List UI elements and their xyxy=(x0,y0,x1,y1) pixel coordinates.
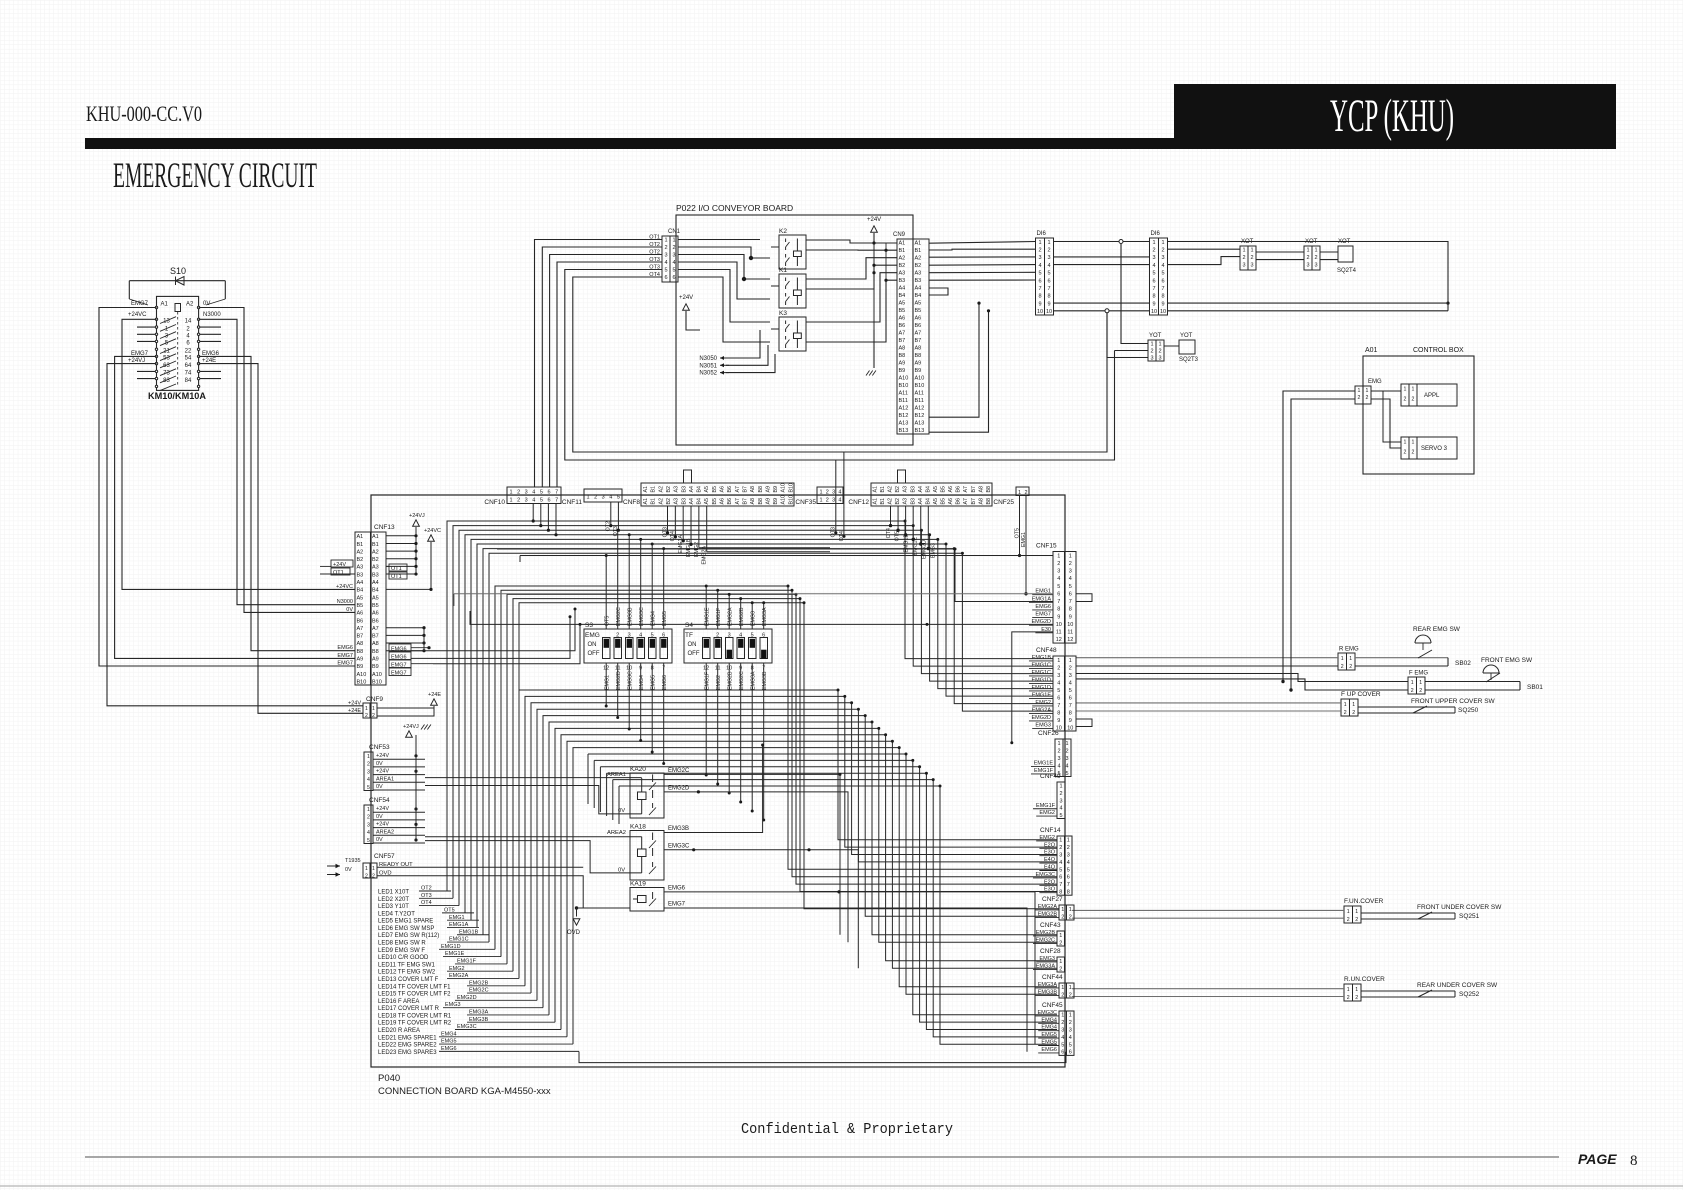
svg-text:4: 4 xyxy=(1067,860,1070,866)
svg-text:+24V: +24V xyxy=(376,769,389,775)
svg-text:EMG5: EMG5 xyxy=(662,611,668,626)
svg-text:OT4: OT4 xyxy=(886,528,892,538)
svg-text:7: 7 xyxy=(1059,882,1062,888)
svg-text:2: 2 xyxy=(1404,450,1407,456)
svg-text:A6: A6 xyxy=(899,316,906,322)
svg-text:B8: B8 xyxy=(758,498,764,505)
svg-text:1: 1 xyxy=(1412,387,1415,393)
svg-text:4: 4 xyxy=(1057,576,1060,582)
svg-text:7: 7 xyxy=(1038,286,1041,292)
svg-text:B5: B5 xyxy=(372,603,379,609)
svg-text:A7: A7 xyxy=(963,498,969,505)
svg-text:1: 1 xyxy=(1341,656,1344,662)
svg-text:1: 1 xyxy=(1419,680,1422,686)
svg-text:A9: A9 xyxy=(372,657,379,663)
svg-text:B7: B7 xyxy=(915,338,922,344)
svg-text:A3: A3 xyxy=(903,498,909,505)
svg-text:B2: B2 xyxy=(899,263,906,269)
svg-text:YCP (KHU): YCP (KHU) xyxy=(1330,90,1454,142)
svg-text:A7: A7 xyxy=(899,331,906,337)
svg-text:12: 12 xyxy=(1056,637,1062,643)
svg-text:9: 9 xyxy=(1161,301,1164,307)
svg-text:5: 5 xyxy=(751,633,754,639)
svg-text:3: 3 xyxy=(1314,263,1317,269)
svg-text:4: 4 xyxy=(532,490,535,496)
svg-text:8: 8 xyxy=(1161,294,1164,300)
svg-text:LED15 TF COVER LMT F2: LED15 TF COVER LMT F2 xyxy=(378,992,451,998)
svg-text:B9: B9 xyxy=(915,368,922,374)
svg-text:K2: K2 xyxy=(779,228,787,235)
svg-text:A7: A7 xyxy=(735,486,741,493)
svg-text:3: 3 xyxy=(664,253,667,259)
svg-text:CONNECTION BOARD KGA-M4550-xx: CONNECTION BOARD KGA-M4550-xxx xyxy=(378,1086,551,1097)
svg-text:9: 9 xyxy=(1069,614,1072,620)
svg-text:14: 14 xyxy=(185,319,192,325)
svg-text:EMG2B: EMG2B xyxy=(739,607,745,626)
svg-text:LED6 EMG SW MSP: LED6 EMG SW MSP xyxy=(378,926,434,932)
svg-text:A4: A4 xyxy=(899,286,906,292)
svg-text:6: 6 xyxy=(1061,1050,1064,1056)
svg-text:9: 9 xyxy=(1152,301,1155,307)
svg-text:KA19: KA19 xyxy=(630,881,646,888)
svg-text:8: 8 xyxy=(1067,890,1070,896)
svg-text:3: 3 xyxy=(367,769,370,775)
svg-text:B6: B6 xyxy=(915,323,922,329)
svg-text:A6: A6 xyxy=(948,498,954,505)
svg-text:3: 3 xyxy=(1038,255,1041,261)
svg-text:LED20 R AREA: LED20 R AREA xyxy=(378,1028,420,1034)
svg-text:B1: B1 xyxy=(651,498,657,505)
svg-text:B3: B3 xyxy=(915,278,922,284)
svg-text:EMG1B: EMG1B xyxy=(1032,655,1052,661)
svg-text:8: 8 xyxy=(1630,1153,1638,1169)
svg-text:8: 8 xyxy=(1057,607,1060,613)
svg-text:B10: B10 xyxy=(899,383,909,389)
svg-text:FRONT EMG SW: FRONT EMG SW xyxy=(1481,657,1533,664)
svg-text:1: 1 xyxy=(1412,440,1415,446)
svg-text:2: 2 xyxy=(1352,710,1355,716)
svg-text:2: 2 xyxy=(1059,791,1062,797)
svg-text:0V: 0V xyxy=(345,867,352,873)
svg-text:EMG1D: EMG1D xyxy=(1031,685,1051,691)
svg-text:2: 2 xyxy=(826,490,829,496)
svg-text:A13: A13 xyxy=(915,421,925,427)
svg-text:5: 5 xyxy=(1059,867,1062,873)
svg-text:CNF54: CNF54 xyxy=(369,797,390,804)
svg-text:2: 2 xyxy=(1057,561,1060,567)
svg-text:1: 1 xyxy=(1344,702,1347,708)
svg-text:B5: B5 xyxy=(941,498,947,505)
svg-text:2: 2 xyxy=(1069,914,1072,920)
svg-text:10: 10 xyxy=(1160,309,1166,315)
svg-text:2: 2 xyxy=(1358,395,1361,401)
svg-text:P022 I/O CONVEYOR BOARD: P022 I/O CONVEYOR BOARD xyxy=(676,203,793,213)
svg-text:N3000: N3000 xyxy=(203,312,221,318)
svg-text:1: 1 xyxy=(1069,553,1072,559)
svg-text:EMG1F: EMG1F xyxy=(1036,803,1056,809)
svg-text:A2: A2 xyxy=(372,549,379,555)
svg-text:A2: A2 xyxy=(915,256,922,262)
svg-text:3: 3 xyxy=(1057,673,1060,679)
svg-text:A6: A6 xyxy=(372,611,379,617)
svg-text:6: 6 xyxy=(1069,1050,1072,1056)
svg-text:2: 2 xyxy=(1067,845,1070,851)
svg-text:5: 5 xyxy=(367,785,370,791)
svg-text:A5: A5 xyxy=(372,595,379,601)
svg-text:A1: A1 xyxy=(357,534,364,540)
svg-text:B2: B2 xyxy=(666,486,672,493)
svg-text:CNF27: CNF27 xyxy=(1042,896,1063,903)
svg-text:1: 1 xyxy=(1067,838,1070,844)
svg-text:CN9: CN9 xyxy=(893,232,906,238)
svg-text:2: 2 xyxy=(1306,255,1309,261)
svg-text:B5: B5 xyxy=(712,486,718,493)
svg-text:2: 2 xyxy=(1065,748,1068,754)
svg-text:FRONT UPPER COVER SW: FRONT UPPER COVER SW xyxy=(1411,698,1496,705)
svg-text:EMG3C: EMG3C xyxy=(628,671,634,690)
svg-text:B6: B6 xyxy=(357,618,364,624)
svg-text:4: 4 xyxy=(1065,763,1068,769)
svg-text:8: 8 xyxy=(1057,710,1060,716)
svg-text:2: 2 xyxy=(1038,248,1041,254)
svg-text:5: 5 xyxy=(540,498,543,504)
svg-text:S4: S4 xyxy=(685,622,693,629)
svg-text:2: 2 xyxy=(1341,664,1344,670)
svg-text:2: 2 xyxy=(1069,665,1072,671)
svg-text:B3: B3 xyxy=(681,486,687,493)
svg-text:2: 2 xyxy=(1250,255,1253,261)
svg-text:SQ252: SQ252 xyxy=(1459,991,1480,998)
svg-text:10: 10 xyxy=(1046,309,1052,315)
svg-text:2: 2 xyxy=(594,495,597,501)
svg-text:AREA2: AREA2 xyxy=(607,830,626,836)
svg-text:CONTROL BOX: CONTROL BOX xyxy=(1413,347,1464,354)
svg-text:8: 8 xyxy=(1047,294,1050,300)
svg-text:5: 5 xyxy=(651,633,654,639)
svg-text:KHU-000-CC.V0: KHU-000-CC.V0 xyxy=(86,101,202,126)
svg-text:B9: B9 xyxy=(899,368,906,374)
svg-text:A10: A10 xyxy=(357,672,367,678)
svg-text:LED18 TF COVER LMT R1: LED18 TF COVER LMT R1 xyxy=(378,1013,452,1019)
svg-text:SB02: SB02 xyxy=(1455,660,1471,667)
svg-text:4: 4 xyxy=(1047,263,1050,269)
svg-text:EMG6: EMG6 xyxy=(1035,604,1051,610)
svg-text:5: 5 xyxy=(1057,584,1060,590)
svg-text:EMG6: EMG6 xyxy=(662,675,668,690)
svg-text:CNF49: CNF49 xyxy=(1040,773,1061,780)
svg-text:A8: A8 xyxy=(899,346,906,352)
svg-text:1: 1 xyxy=(1366,388,1369,394)
svg-text:R.UN.COVER: R.UN.COVER xyxy=(1344,976,1385,983)
svg-text:OT1: OT1 xyxy=(391,574,402,580)
svg-text:EMG2B: EMG2B xyxy=(728,671,734,690)
svg-text:B13: B13 xyxy=(915,428,925,434)
svg-text:3: 3 xyxy=(1057,569,1060,575)
svg-text:7: 7 xyxy=(555,498,558,504)
svg-text:4: 4 xyxy=(367,830,370,836)
svg-text:B4: B4 xyxy=(697,486,703,493)
svg-text:1: 1 xyxy=(1161,240,1164,246)
svg-text:OFF: OFF xyxy=(688,651,700,657)
svg-text:REAR EMG SW: REAR EMG SW xyxy=(1413,626,1461,633)
svg-text:FRONT UNDER COVER SW: FRONT UNDER COVER SW xyxy=(1417,904,1502,911)
svg-text:0V: 0V xyxy=(376,761,383,767)
svg-text:A9: A9 xyxy=(357,657,364,663)
svg-text:4: 4 xyxy=(1057,763,1060,769)
svg-text:4: 4 xyxy=(1059,860,1062,866)
svg-text:10: 10 xyxy=(1151,309,1157,315)
svg-text:A8: A8 xyxy=(372,641,379,647)
svg-text:9: 9 xyxy=(1057,614,1060,620)
svg-text:B5: B5 xyxy=(712,498,718,505)
svg-text:EMG: EMG xyxy=(1368,379,1382,385)
svg-text:A2: A2 xyxy=(186,302,194,308)
svg-text:4: 4 xyxy=(1057,680,1060,686)
svg-text:6: 6 xyxy=(1047,278,1050,284)
svg-text:LED16 F AREA: LED16 F AREA xyxy=(378,999,419,1005)
svg-text:A7: A7 xyxy=(915,331,922,337)
svg-text:1: 1 xyxy=(1065,741,1068,747)
svg-text:5: 5 xyxy=(1065,771,1068,777)
svg-text:1: 1 xyxy=(1306,248,1309,254)
svg-text:6: 6 xyxy=(1152,278,1155,284)
svg-text:B7: B7 xyxy=(971,486,977,493)
svg-text:2: 2 xyxy=(826,498,829,504)
svg-text:LED22 EMG SPARE2: LED22 EMG SPARE2 xyxy=(378,1043,437,1049)
svg-text:CNF11: CNF11 xyxy=(562,499,582,506)
svg-text:LED5 EMG1 SPARE: LED5 EMG1 SPARE xyxy=(378,919,433,925)
svg-text:4: 4 xyxy=(1059,806,1062,812)
svg-text:1: 1 xyxy=(1018,490,1021,496)
svg-text:F.UN.COVER: F.UN.COVER xyxy=(1344,898,1384,905)
svg-text:10: 10 xyxy=(1056,622,1062,628)
svg-text:7: 7 xyxy=(1057,703,1060,709)
svg-text:A8: A8 xyxy=(915,346,922,352)
svg-text:B6: B6 xyxy=(727,486,733,493)
svg-text:A3: A3 xyxy=(674,498,680,505)
svg-text:9: 9 xyxy=(1057,718,1060,724)
svg-text:A12: A12 xyxy=(915,406,925,412)
svg-text:A7: A7 xyxy=(372,626,379,632)
svg-text:7: 7 xyxy=(1067,882,1070,888)
svg-text:0V: 0V xyxy=(376,814,383,820)
svg-text:9: 9 xyxy=(1038,301,1041,307)
svg-text:1: 1 xyxy=(664,238,667,244)
svg-text:KM10/KM10A: KM10/KM10A xyxy=(148,391,206,402)
svg-text:5: 5 xyxy=(672,268,675,274)
svg-text:K1: K1 xyxy=(779,267,787,274)
svg-text:74: 74 xyxy=(185,371,192,377)
svg-text:1: 1 xyxy=(367,807,370,813)
svg-text:2: 2 xyxy=(1344,710,1347,716)
svg-text:A1: A1 xyxy=(873,486,879,493)
svg-text:A11: A11 xyxy=(915,391,924,397)
svg-text:LED1 X10T: LED1 X10T xyxy=(378,890,409,896)
svg-text:CNF25: CNF25 xyxy=(993,499,1014,506)
svg-text:1: 1 xyxy=(372,706,375,712)
svg-text:B2: B2 xyxy=(666,498,672,505)
svg-text:2: 2 xyxy=(367,762,370,768)
svg-text:A1: A1 xyxy=(643,486,649,493)
svg-text:N3052: N3052 xyxy=(699,371,717,377)
svg-text:2: 2 xyxy=(1059,966,1062,972)
svg-text:A4: A4 xyxy=(915,286,922,292)
svg-text:1: 1 xyxy=(1355,909,1358,915)
svg-text:B3: B3 xyxy=(681,498,687,505)
svg-text:LED19 TF COVER LMT R2: LED19 TF COVER LMT R2 xyxy=(378,1021,452,1027)
svg-text:2: 2 xyxy=(1057,748,1060,754)
svg-text:A4: A4 xyxy=(689,486,695,493)
svg-text:LED7 EMG SW R(112): LED7 EMG SW R(112) xyxy=(378,933,439,939)
svg-text:B5: B5 xyxy=(915,308,922,314)
svg-text:2: 2 xyxy=(372,713,375,719)
svg-text:9: 9 xyxy=(1047,301,1050,307)
svg-text:1: 1 xyxy=(1404,440,1407,446)
svg-text:1: 1 xyxy=(1352,702,1355,708)
svg-text:B9: B9 xyxy=(357,664,364,670)
svg-text:EMG2: EMG2 xyxy=(716,675,722,690)
svg-text:2: 2 xyxy=(1412,450,1415,456)
svg-text:64: 64 xyxy=(185,363,192,369)
svg-text:6: 6 xyxy=(1057,591,1060,597)
svg-text:A1: A1 xyxy=(643,498,649,505)
svg-text:EMG1E: EMG1E xyxy=(1034,760,1054,766)
svg-text:2: 2 xyxy=(1024,490,1027,496)
svg-text:+24V: +24V xyxy=(376,806,389,812)
svg-text:6: 6 xyxy=(762,633,765,639)
svg-text:B6: B6 xyxy=(956,498,962,505)
svg-text:EMG2D: EMG2D xyxy=(616,671,622,690)
svg-text:EMG2C: EMG2C xyxy=(616,607,622,626)
svg-text:EMG2A: EMG2A xyxy=(728,607,734,626)
svg-text:1: 1 xyxy=(509,498,512,504)
svg-text:B8: B8 xyxy=(372,649,379,655)
svg-text:1: 1 xyxy=(509,490,512,496)
svg-text:2: 2 xyxy=(1161,248,1164,254)
svg-text:EMG1: EMG1 xyxy=(605,675,611,690)
svg-text:B4: B4 xyxy=(915,293,922,299)
svg-text:A5: A5 xyxy=(704,498,710,505)
svg-text:3: 3 xyxy=(1047,255,1050,261)
svg-text:8: 8 xyxy=(1038,294,1041,300)
svg-text:B7: B7 xyxy=(899,338,906,344)
svg-text:A10: A10 xyxy=(781,495,787,504)
svg-text:LED4 T.Y2OT: LED4 T.Y2OT xyxy=(378,911,415,917)
svg-text:B12: B12 xyxy=(915,413,925,419)
svg-text:SQ2T3: SQ2T3 xyxy=(1179,357,1199,363)
svg-text:6: 6 xyxy=(1069,591,1072,597)
svg-text:A3: A3 xyxy=(899,271,906,277)
svg-text:LED2 X20T: LED2 X20T xyxy=(378,897,409,903)
svg-text:EMG2: EMG2 xyxy=(1039,810,1055,816)
svg-text:1: 1 xyxy=(367,754,370,760)
svg-text:A6: A6 xyxy=(948,486,954,493)
svg-text:A2: A2 xyxy=(658,486,664,493)
svg-text:2: 2 xyxy=(372,874,375,880)
svg-text:6: 6 xyxy=(662,633,665,639)
svg-text:1: 1 xyxy=(1349,656,1352,662)
svg-text:B9: B9 xyxy=(372,664,379,670)
svg-text:1: 1 xyxy=(1061,907,1064,913)
svg-text:B6: B6 xyxy=(899,323,906,329)
svg-text:54: 54 xyxy=(185,356,192,362)
svg-text:2: 2 xyxy=(1059,845,1062,851)
svg-text:2: 2 xyxy=(1152,248,1155,254)
svg-text:CNF28: CNF28 xyxy=(1040,948,1061,955)
svg-text:4: 4 xyxy=(639,633,642,639)
svg-text:B4: B4 xyxy=(899,293,906,299)
svg-text:2: 2 xyxy=(1411,688,1414,694)
svg-text:6: 6 xyxy=(672,275,675,281)
svg-text:1: 1 xyxy=(1242,248,1245,254)
svg-text:B3: B3 xyxy=(372,572,379,578)
svg-text:2: 2 xyxy=(1355,995,1358,1001)
svg-text:CNF48: CNF48 xyxy=(1036,647,1057,654)
svg-text:2: 2 xyxy=(616,633,619,639)
svg-text:EMG2C: EMG2C xyxy=(739,671,745,690)
svg-text:3: 3 xyxy=(1158,355,1161,361)
svg-text:P040: P040 xyxy=(378,1073,400,1084)
svg-text:+24V: +24V xyxy=(867,217,881,223)
svg-text:1: 1 xyxy=(1150,341,1153,347)
svg-text:6: 6 xyxy=(1067,875,1070,881)
svg-text:10: 10 xyxy=(1067,725,1073,731)
svg-text:B7: B7 xyxy=(742,498,748,505)
svg-text:1: 1 xyxy=(586,495,589,501)
svg-text:12: 12 xyxy=(1067,637,1073,643)
svg-text:8: 8 xyxy=(1059,890,1062,896)
svg-text:8: 8 xyxy=(1069,607,1072,613)
svg-text:EMG2D: EMG2D xyxy=(1031,715,1051,721)
svg-text:EMERGENCY CIRCUIT: EMERGENCY CIRCUIT xyxy=(113,155,317,195)
svg-text:+24VJ: +24VJ xyxy=(403,724,419,730)
svg-text:A1: A1 xyxy=(899,241,906,247)
svg-text:CNF45: CNF45 xyxy=(1042,1002,1063,1009)
svg-text:B13: B13 xyxy=(899,428,909,434)
svg-text:A11: A11 xyxy=(899,391,908,397)
svg-text:A5: A5 xyxy=(933,498,939,505)
svg-text:KA18: KA18 xyxy=(630,824,646,831)
svg-text:5: 5 xyxy=(1057,688,1060,694)
svg-text:A3: A3 xyxy=(915,271,922,277)
svg-text:6: 6 xyxy=(1057,695,1060,701)
svg-text:B10: B10 xyxy=(788,495,794,504)
svg-text:EMG1C: EMG1C xyxy=(1031,662,1051,668)
svg-text:B3: B3 xyxy=(910,486,916,493)
svg-text:3: 3 xyxy=(525,490,528,496)
svg-text:EMG: EMG xyxy=(585,632,600,639)
svg-text:N3051: N3051 xyxy=(699,363,717,369)
svg-text:4: 4 xyxy=(1069,1035,1072,1041)
svg-text:7: 7 xyxy=(1069,599,1072,605)
svg-text:B1: B1 xyxy=(880,498,886,505)
svg-text:CN1: CN1 xyxy=(668,229,681,235)
svg-text:EMG3B: EMG3B xyxy=(668,826,689,832)
svg-text:EMG3A: EMG3A xyxy=(751,671,757,690)
svg-text:EMG6: EMG6 xyxy=(1041,1047,1057,1053)
svg-text:1: 1 xyxy=(672,238,675,244)
svg-text:5: 5 xyxy=(1152,271,1155,277)
svg-text:LED9 EMG SW F: LED9 EMG SW F xyxy=(378,948,425,954)
svg-text:3: 3 xyxy=(1067,853,1070,859)
svg-text:4: 4 xyxy=(1038,263,1041,269)
svg-text:APPL: APPL xyxy=(1424,393,1440,399)
svg-text:B1: B1 xyxy=(372,542,379,548)
svg-text:A1: A1 xyxy=(372,534,379,540)
svg-text:B6: B6 xyxy=(727,498,733,505)
svg-text:A8: A8 xyxy=(357,641,364,647)
svg-text:2: 2 xyxy=(517,498,520,504)
